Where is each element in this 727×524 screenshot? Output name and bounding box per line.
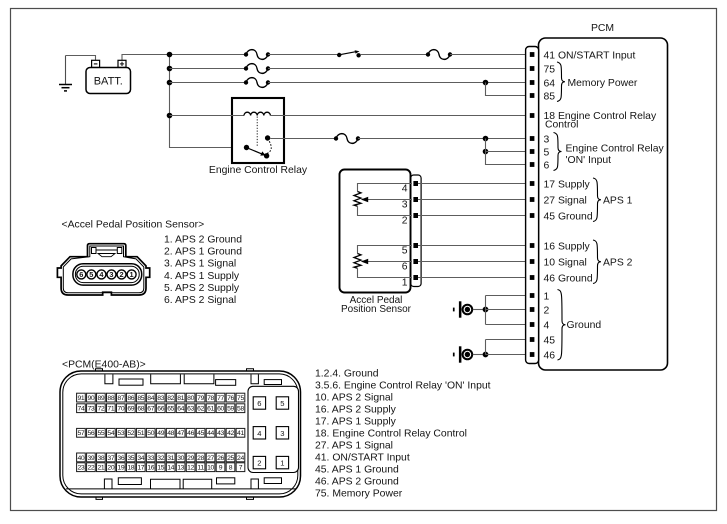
sensor pin 3: [413, 197, 418, 202]
svg-text:PCM: PCM: [591, 23, 614, 34]
svg-text:66: 66: [157, 406, 164, 413]
svg-text:65: 65: [167, 406, 174, 413]
svg-text:6. APS 2 Signal: 6. APS 2 Signal: [164, 295, 236, 306]
APS connector pin 4: [97, 270, 106, 279]
potentiometer APS1 (resistor): [354, 184, 412, 216]
brace APS 1: [593, 178, 601, 222]
svg-text:35: 35: [127, 455, 134, 462]
label legend 46. APS 2 Grou: [315, 477, 399, 488]
svg-text:27: 27: [207, 455, 214, 462]
label legend 3.5.6. Engine: [315, 381, 491, 392]
svg-text:2: 2: [119, 270, 123, 279]
Accel Pedal Position Sensor box: [340, 170, 411, 293]
E400 pin row 57-41: [77, 428, 245, 437]
wire sensor to PCM 46 Ground: [418, 277, 530, 279]
PCM pin 3: [530, 136, 535, 141]
svg-text:64: 64: [177, 406, 184, 413]
svg-text:58: 58: [237, 406, 244, 413]
svg-text:5: 5: [280, 399, 284, 408]
label pin 4: [544, 320, 550, 331]
svg-text:41. ON/START Input: 41. ON/START Input: [315, 453, 410, 464]
label pin 16 Supply: [544, 241, 591, 252]
E400 large pin 4: [253, 427, 265, 439]
label pin 18 Engine Control Relay: [544, 111, 657, 122]
svg-text:34: 34: [137, 455, 144, 462]
label Ground: [567, 320, 602, 331]
svg-text:75: 75: [237, 395, 244, 402]
svg-text:89: 89: [97, 395, 104, 402]
svg-text:5: 5: [402, 245, 408, 256]
wire fuse 4 to pin 41: [450, 54, 530, 56]
label legend 75. Memory Pow: [315, 489, 403, 500]
svg-text:87: 87: [117, 395, 124, 402]
svg-text:3: 3: [402, 199, 408, 210]
svg-text:15: 15: [157, 465, 164, 472]
svg-text:37: 37: [107, 455, 114, 462]
wire fuse 5 to pin 3: [358, 138, 530, 140]
fusible link F3: [244, 78, 270, 88]
APS connector pin 5: [87, 270, 96, 279]
label APS connector title: [62, 220, 205, 231]
svg-text:59: 59: [227, 406, 234, 413]
svg-text:51: 51: [137, 430, 144, 437]
label pin 85: [544, 91, 556, 102]
svg-text:21: 21: [97, 465, 104, 472]
svg-text:1. APS 2 Ground: 1. APS 2 Ground: [164, 235, 242, 246]
svg-text:5: 5: [544, 147, 550, 158]
APS connector face outline: [57, 244, 149, 295]
brace APS 2: [593, 240, 601, 284]
svg-text:28: 28: [197, 455, 204, 462]
svg-text:73: 73: [87, 406, 94, 413]
svg-text:Control: Control: [545, 119, 579, 130]
svg-text:46. APS 2 Ground: 46. APS 2 Ground: [315, 477, 399, 488]
svg-text:1: 1: [544, 291, 550, 302]
E400 pin row 40-24: [77, 453, 245, 462]
relay coil: [244, 112, 270, 115]
label pin 17 Supply: [544, 179, 591, 190]
PCM pin 1: [530, 293, 535, 298]
label sensor pin number 1: [402, 277, 408, 288]
label pin 46 ground: [544, 350, 556, 361]
svg-text:45 Ground: 45 Ground: [544, 211, 593, 222]
svg-text:2: 2: [544, 305, 550, 316]
wire relay output to fuse 5: [270, 138, 336, 140]
label pin 27 Signal: [544, 195, 587, 206]
APS connector pin 6: [77, 270, 86, 279]
PCM pin 45: [530, 213, 535, 218]
svg-text:78: 78: [207, 395, 214, 402]
svg-text:61: 61: [207, 406, 214, 413]
APS connector tab detail: [92, 248, 122, 257]
label pin 75: [544, 64, 556, 75]
svg-text:BATT.: BATT.: [94, 76, 123, 88]
relay actuation dashed link: [256, 117, 258, 148]
svg-text:67: 67: [147, 406, 154, 413]
wire bus to relay coil: [170, 115, 245, 117]
svg-text:39: 39: [87, 455, 94, 462]
relay switch: [244, 135, 271, 158]
svg-text:60: 60: [217, 406, 224, 413]
svg-text:6: 6: [544, 160, 550, 171]
svg-text:27 Signal: 27 Signal: [544, 195, 587, 206]
svg-text:48: 48: [167, 430, 174, 437]
svg-text:46 Ground: 46 Ground: [544, 273, 593, 284]
label legend 45. APS 1 Grou: [315, 465, 399, 476]
svg-text:13: 13: [177, 465, 184, 472]
svg-text:75. Memory Power: 75. Memory Power: [315, 489, 403, 500]
wire to pin 1: [486, 295, 530, 297]
wire sensor to PCM 27 Signal: [418, 199, 530, 201]
svg-text:68: 68: [137, 406, 144, 413]
svg-text:62: 62: [197, 406, 204, 413]
label pin 1: [544, 291, 550, 302]
svg-text:74: 74: [78, 406, 85, 413]
svg-text:4: 4: [402, 183, 408, 194]
svg-text:57: 57: [78, 430, 85, 437]
wire ground G2 to node: [473, 354, 483, 356]
svg-text:64: 64: [544, 78, 556, 89]
svg-text:76: 76: [227, 395, 234, 402]
wire fuse 3 to pin 64: [268, 82, 530, 84]
svg-text:63: 63: [187, 406, 194, 413]
svg-text:77: 77: [217, 395, 224, 402]
label legend 27. APS 1 Sign: [315, 441, 393, 452]
label Position Sensor: [341, 304, 412, 315]
wire sensor to PCM 16 Supply: [418, 245, 530, 247]
ignition switch: [337, 50, 361, 57]
label sensor pin number 4: [402, 183, 408, 194]
PCM connector strip: [526, 47, 539, 364]
svg-text:83: 83: [157, 395, 164, 402]
E400 pin row 91-75: [77, 393, 245, 402]
svg-text:1: 1: [130, 270, 134, 279]
svg-text:18: 18: [127, 465, 134, 472]
svg-text:Memory Power: Memory Power: [568, 78, 638, 89]
svg-text:26: 26: [217, 455, 224, 462]
svg-text:18. Engine Control Relay Contr: 18. Engine Control Relay Control: [315, 429, 467, 440]
label sensor pin number 3: [402, 199, 408, 210]
label pin 45 ground: [544, 335, 556, 346]
svg-text:3.5.6. Engine Control Relay 'O: 3.5.6. Engine Control Relay 'ON' Input: [315, 381, 491, 392]
label APS list 4. APS: [164, 271, 240, 282]
svg-text:2: 2: [402, 215, 408, 226]
svg-text:16: 16: [147, 465, 154, 472]
svg-text:8: 8: [229, 465, 233, 472]
svg-text:41: 41: [237, 430, 244, 437]
wire battery positive to bus: [122, 55, 170, 61]
svg-text:45: 45: [197, 430, 204, 437]
svg-text:3: 3: [280, 429, 284, 438]
svg-text:1: 1: [280, 459, 284, 468]
svg-text:43: 43: [217, 430, 224, 437]
svg-text:72: 72: [97, 406, 104, 413]
svg-text:4. APS 1 Supply: 4. APS 1 Supply: [164, 271, 240, 282]
svg-text:31: 31: [167, 455, 174, 462]
label pin 41 ON/START Input: [544, 50, 636, 61]
fusible link F2: [244, 64, 270, 74]
label sensor pin number 2: [402, 215, 408, 226]
wire to pin 2: [486, 309, 530, 311]
wire fuse 1 to ignition switch: [268, 54, 339, 56]
label Control (wrap): [545, 119, 579, 130]
sensor pin 1: [413, 275, 418, 280]
label APS list 3. APS: [164, 259, 236, 270]
svg-text:80: 80: [187, 395, 194, 402]
svg-text:<Accel Pedal Position Sensor>: <Accel Pedal Position Sensor>: [62, 220, 205, 231]
sensor pin 6: [413, 259, 418, 264]
svg-text:45: 45: [544, 335, 556, 346]
fusible link F5: [334, 134, 360, 144]
PCM pin 75: [530, 66, 535, 71]
label legend 1.2.4. Ground: [315, 369, 379, 380]
svg-text:6: 6: [79, 270, 83, 279]
svg-text:54: 54: [107, 430, 114, 437]
label pin 64: [544, 78, 556, 89]
svg-text:2. APS 1 Ground: 2. APS 1 Ground: [164, 247, 242, 258]
ground (battery earth): [59, 56, 72, 91]
label Memory Power: [568, 78, 638, 89]
svg-text:17: 17: [137, 465, 144, 472]
svg-text:53: 53: [117, 430, 124, 437]
E400 bottom edge tabs: [104, 478, 281, 489]
E400 large pin 5: [276, 397, 288, 409]
label pin 10 Signal: [544, 257, 587, 268]
brace relay ON input: [554, 133, 562, 171]
svg-text:84: 84: [147, 395, 154, 402]
wire sensor to PCM 45 Ground: [418, 215, 530, 217]
wire sensor to PCM 17 Supply: [418, 183, 530, 185]
PCM box: [539, 38, 668, 370]
svg-text:Engine Control Relay: Engine Control Relay: [209, 165, 308, 176]
APS connector pin 3: [107, 270, 116, 279]
svg-text:85: 85: [137, 395, 144, 402]
svg-text:3. APS 1 Signal: 3. APS 1 Signal: [164, 259, 236, 270]
svg-text:<PCM(E400-AB)>: <PCM(E400-AB)>: [62, 360, 146, 371]
label sensor pin number 6: [402, 261, 408, 272]
PCM pin 16: [530, 243, 535, 248]
PCM pin 85: [530, 93, 535, 98]
brace memory power: [557, 62, 565, 102]
svg-text:Ground: Ground: [567, 320, 602, 331]
PCM pin 18: [530, 113, 535, 118]
label APS list 2. APS: [164, 247, 242, 258]
E400 large pin 2: [253, 456, 265, 468]
PCM pin 17: [530, 181, 535, 186]
E400 outer bottom bumps: [96, 497, 254, 499]
fusible link F4: [426, 50, 452, 60]
svg-text:Engine Control Relay: Engine Control Relay: [566, 143, 665, 154]
svg-text:22: 22: [87, 465, 94, 472]
wire fuse 2 to pin 75: [268, 68, 530, 70]
svg-text:70: 70: [117, 406, 124, 413]
svg-text:3: 3: [544, 134, 550, 145]
junction bus node at memory line 1: [167, 66, 173, 72]
wire relay coil to pin 18: [270, 115, 529, 117]
svg-text:47: 47: [177, 430, 184, 437]
wire branch to pin 85: [486, 83, 530, 96]
svg-text:29: 29: [187, 455, 194, 462]
svg-text:9: 9: [219, 465, 223, 472]
E400 large pin 3: [276, 427, 288, 439]
wire branch to pin 5: [486, 151, 530, 153]
svg-text:46: 46: [544, 350, 556, 361]
label PCM title: [591, 23, 614, 34]
label APS 1: [603, 195, 633, 206]
svg-text:APS 2: APS 2: [603, 257, 633, 268]
PCM pin 46b: [530, 352, 535, 357]
svg-text:56: 56: [87, 430, 94, 437]
E400 pin row 74-58: [77, 404, 245, 413]
svg-text:40: 40: [78, 455, 85, 462]
PCM pin 6: [530, 162, 535, 167]
potentiometer APS2 (resistor): [354, 246, 412, 278]
svg-text:2: 2: [257, 459, 261, 468]
label APS list 5. APS: [164, 283, 240, 294]
label Engine Control Relay ON 2: [566, 155, 612, 166]
svg-text:69: 69: [127, 406, 134, 413]
svg-text:5: 5: [89, 270, 93, 279]
svg-text:44: 44: [207, 430, 214, 437]
junction relay ON branch node 2: [483, 149, 489, 155]
label pin 5: [544, 147, 550, 158]
PCM pin 2: [530, 307, 535, 312]
wire to pin 45: [486, 339, 530, 341]
svg-text:38: 38: [97, 455, 104, 462]
PCM pin 27: [530, 197, 535, 202]
svg-text:55: 55: [97, 430, 104, 437]
svg-text:7: 7: [239, 465, 243, 472]
svg-text:41 ON/START Input: 41 ON/START Input: [544, 50, 636, 61]
svg-text:1.2.4. Ground: 1.2.4. Ground: [315, 369, 379, 380]
junction ground node 2: [483, 352, 489, 358]
APS connector pin 1: [127, 270, 136, 279]
wire branch to pin 6: [486, 139, 530, 165]
svg-text:33: 33: [147, 455, 154, 462]
svg-text:5. APS 2 Supply: 5. APS 2 Supply: [164, 283, 240, 294]
svg-text:50: 50: [147, 430, 154, 437]
svg-text:90: 90: [87, 395, 94, 402]
chassis ground G1: [453, 301, 472, 317]
chassis ground G2: [453, 346, 472, 362]
svg-text:14: 14: [167, 465, 174, 472]
PCM connector E400-AB face outline: [60, 371, 301, 497]
junction bus node at relay coil line: [167, 113, 173, 119]
wire to pin 4: [486, 324, 530, 326]
sensor pin 4: [413, 181, 418, 186]
svg-text:16 Supply: 16 Supply: [544, 241, 591, 252]
svg-text:12: 12: [187, 465, 194, 472]
wire switch to fuse 4: [361, 54, 428, 56]
wire bus to fuse 3: [170, 82, 247, 84]
svg-text:20: 20: [107, 465, 114, 472]
APS connector strip (sensor side): [411, 175, 421, 287]
svg-text:86: 86: [127, 395, 134, 402]
sensor pin 5: [413, 243, 418, 248]
svg-text:Position Sensor: Position Sensor: [341, 304, 412, 315]
wiper arrow APS2: [361, 259, 412, 265]
relay box Engine Control Relay: [232, 98, 284, 163]
label pin 46 Ground: [544, 273, 593, 284]
junction ground node 1: [483, 307, 489, 313]
label Accel Pedal: [350, 295, 403, 306]
svg-text:36: 36: [117, 455, 124, 462]
svg-text:42: 42: [227, 430, 234, 437]
wire line B+ to fuse 1: [122, 54, 246, 56]
svg-text:19: 19: [117, 465, 124, 472]
svg-text:32: 32: [157, 455, 164, 462]
svg-text:6: 6: [402, 261, 408, 272]
svg-text:'ON' Input: 'ON' Input: [566, 155, 612, 166]
svg-text:17 Supply: 17 Supply: [544, 179, 591, 190]
svg-text:6: 6: [257, 399, 261, 408]
brace ground group: [558, 290, 566, 361]
PCM pin 46: [530, 275, 535, 280]
wiper arrow APS1: [361, 197, 412, 203]
label E400 title: [62, 360, 146, 371]
svg-text:16. APS 2 Supply: 16. APS 2 Supply: [315, 405, 397, 416]
PCM pin 10: [530, 259, 535, 264]
PCM pin 64: [530, 80, 535, 85]
svg-text:46: 46: [187, 430, 194, 437]
svg-text:23: 23: [78, 465, 85, 472]
svg-text:71: 71: [107, 406, 114, 413]
svg-text:49: 49: [157, 430, 164, 437]
label legend 17. APS 1 Supp: [315, 417, 397, 428]
wire battery negative to ground: [66, 56, 96, 61]
svg-text:4: 4: [544, 320, 550, 331]
svg-text:24: 24: [237, 455, 244, 462]
wire sensor to PCM 10 Signal: [418, 261, 530, 263]
wire bus to fuse 2: [170, 68, 247, 70]
svg-text:91: 91: [78, 395, 85, 402]
svg-text:10: 10: [207, 465, 214, 472]
svg-text:3: 3: [109, 270, 113, 279]
E400 large pin 1: [276, 456, 288, 468]
svg-text:4: 4: [257, 429, 261, 438]
PCM pin 41: [530, 52, 535, 57]
svg-text:17. APS 1 Supply: 17. APS 1 Supply: [315, 417, 397, 428]
PCM pin 4: [530, 322, 535, 327]
svg-text:25: 25: [227, 455, 234, 462]
APS connector pin 2: [117, 270, 126, 279]
svg-text:1: 1: [402, 277, 408, 288]
junction memory power branch: [483, 80, 489, 86]
wire bus vertical + feed to relay switch: [170, 55, 247, 148]
E400 large pin 6: [253, 397, 265, 409]
E400 right panel: [248, 386, 299, 472]
PCM pin 45b: [530, 337, 535, 342]
label legend 16. APS 2 Supp: [315, 405, 397, 416]
label Engine Control Relay ON 1: [566, 143, 665, 154]
label APS 2: [603, 257, 633, 268]
label pin 45 Ground: [544, 211, 593, 222]
junction bus node at ON/START line: [167, 52, 173, 58]
svg-text:APS 1: APS 1: [603, 195, 633, 206]
APS connector pin cavity: [73, 264, 142, 285]
label pin 3: [544, 134, 550, 145]
svg-text:45. APS 1 Ground: 45. APS 1 Ground: [315, 465, 399, 476]
junction bus node at memory line 2: [167, 80, 173, 86]
svg-text:82: 82: [167, 395, 174, 402]
svg-text:10 Signal: 10 Signal: [544, 257, 587, 268]
label pin 6: [544, 160, 550, 171]
sensor pin 2: [413, 213, 418, 218]
label legend 18. Engine Con: [315, 429, 467, 440]
battery BATT: [86, 60, 131, 93]
svg-text:52: 52: [127, 430, 134, 437]
svg-text:88: 88: [107, 395, 114, 402]
